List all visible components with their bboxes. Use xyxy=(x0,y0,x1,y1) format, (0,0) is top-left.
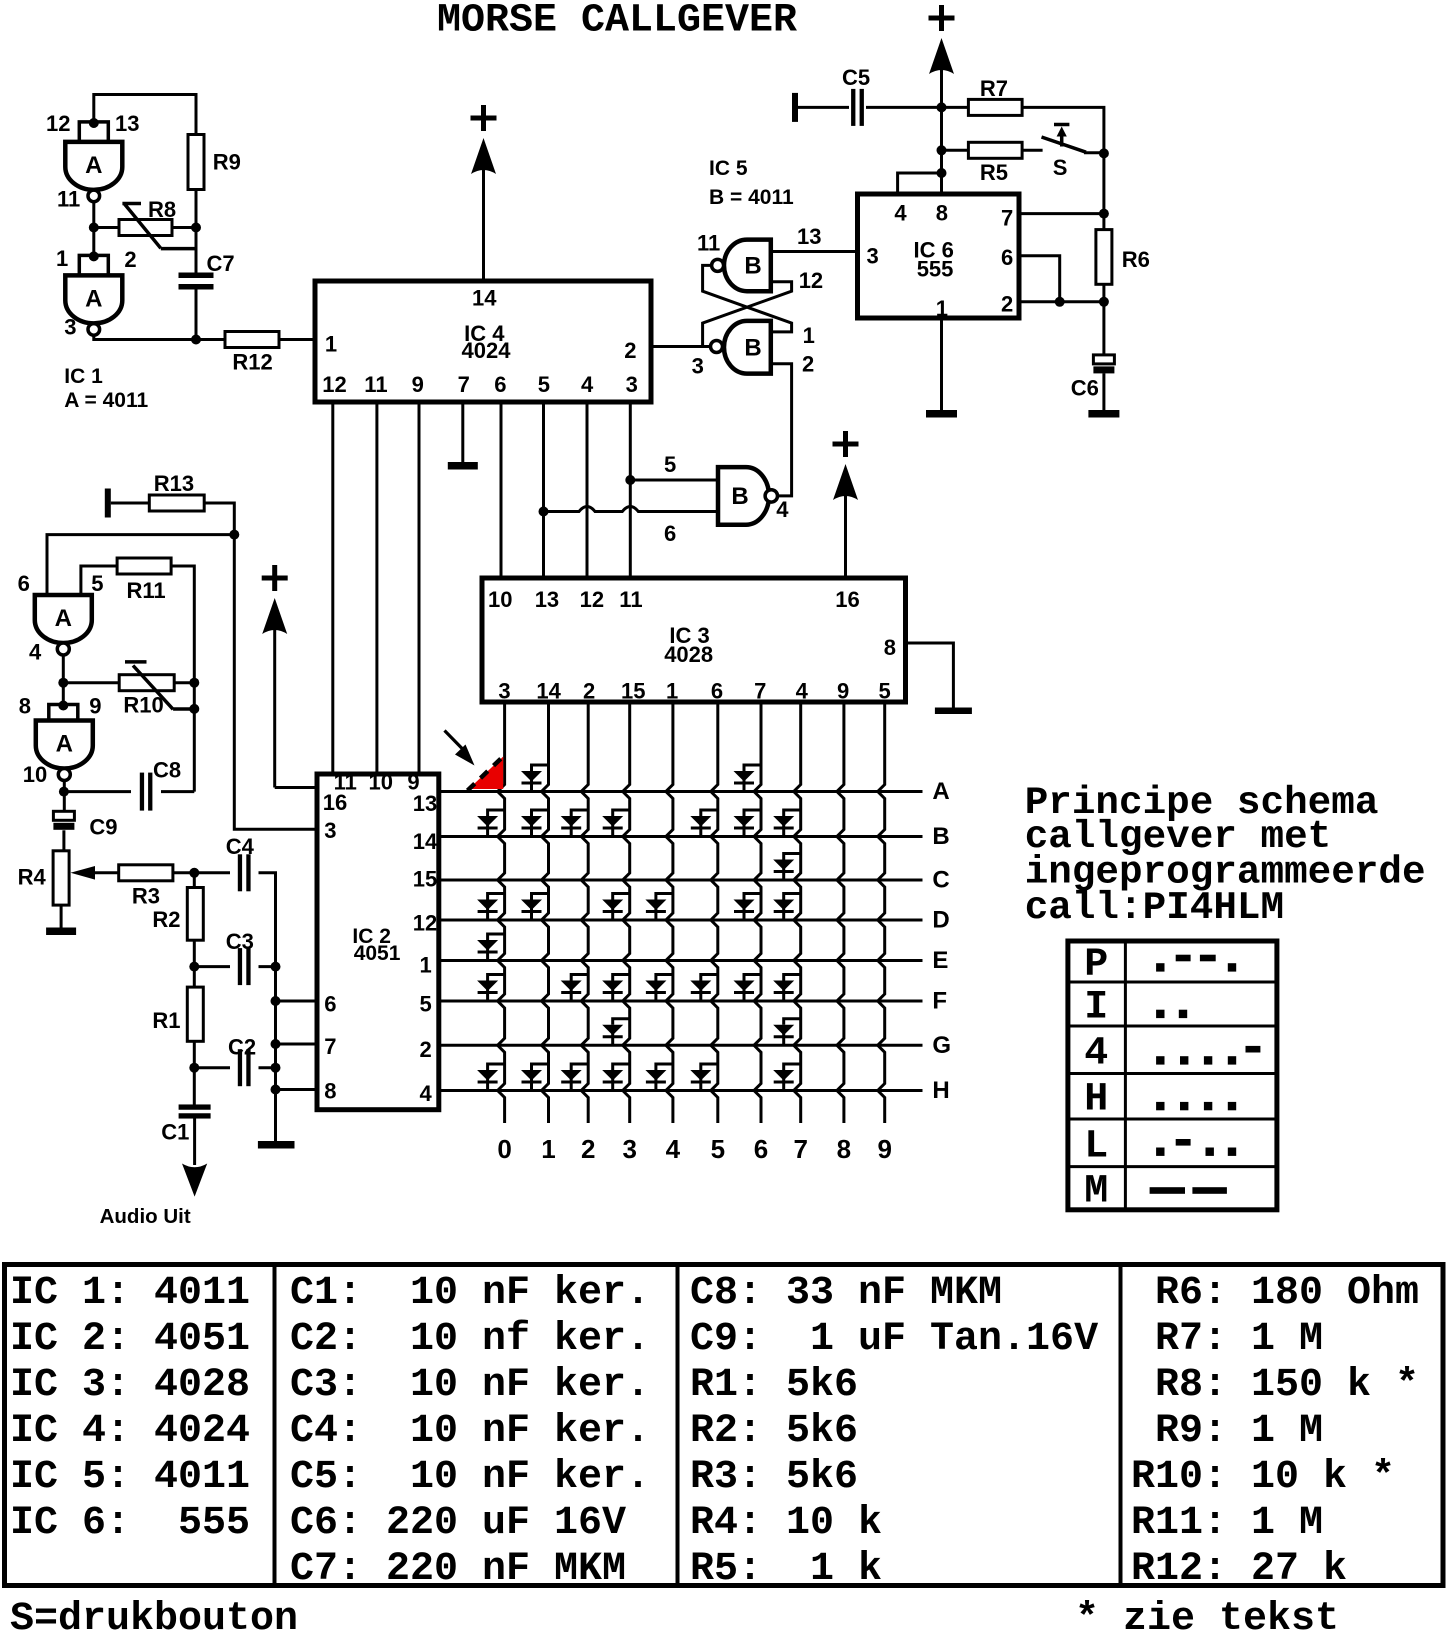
capacitor C1 xyxy=(179,1104,211,1109)
wire matrix column 6 from IC3 with crossover jogs xyxy=(754,702,761,1123)
ground under C6 xyxy=(1088,410,1119,418)
resistor R7 xyxy=(968,99,1022,115)
resistor R5 xyxy=(968,142,1022,158)
node morse H .... xyxy=(1156,1102,1164,1110)
node A1 out / R8 left xyxy=(89,223,99,233)
svg-text:10: 10 xyxy=(488,587,512,612)
wire C2 right to rail xyxy=(259,1066,276,1069)
resistor R11 xyxy=(117,558,171,574)
svg-text:1: 1 xyxy=(936,296,948,321)
wire IC4 pin2 to B2 output pin 3 xyxy=(651,345,711,348)
wire matrix column 2 from IC3 with crossover jogs xyxy=(581,702,588,1123)
terminal open end left of R13 xyxy=(105,489,111,518)
svg-text:C7: C7 xyxy=(207,251,235,276)
wire A3 output down to node xyxy=(62,655,65,706)
svg-text:R3: 5k6: R3: 5k6 xyxy=(690,1455,858,1500)
capacitor C7 xyxy=(179,273,214,279)
svg-text:M: M xyxy=(1084,1170,1108,1215)
junction C3 / rail xyxy=(271,962,281,972)
svg-text:1: 1 xyxy=(420,952,432,977)
svg-text:IC 6: 555: IC 6: 555 xyxy=(10,1501,250,1546)
svg-text:4024: 4024 xyxy=(462,338,512,363)
junction pin7 / R6 top xyxy=(1099,209,1109,219)
svg-text:IC 3: 4028: IC 3: 4028 xyxy=(10,1363,250,1408)
svg-text:A: A xyxy=(85,152,102,179)
svg-text:R11: R11 xyxy=(127,578,166,603)
junction R5 tap xyxy=(937,145,947,155)
wire B3 input 5 from IC4 pin3 line xyxy=(630,479,718,482)
junction +V / C5 / R7 xyxy=(937,102,947,112)
svg-text:13: 13 xyxy=(797,224,821,249)
diode matrix row A column 1 xyxy=(521,765,549,792)
svg-text:9: 9 xyxy=(89,693,101,718)
svg-text:C5: C5 xyxy=(842,65,870,90)
junction R3 / R2 / C4 xyxy=(189,868,199,878)
junction R13 line / A3 input 6 xyxy=(229,530,239,540)
svg-text:IC 5: IC 5 xyxy=(709,157,748,180)
diode matrix row F column 2 xyxy=(561,975,589,1002)
svg-text:5: 5 xyxy=(664,452,676,477)
svg-text:14: 14 xyxy=(472,286,497,311)
wire R11 left to gate A3 input 5 xyxy=(81,566,117,595)
diode matrix row F column 5 xyxy=(690,975,718,1002)
wire R9 bottom to junction xyxy=(195,190,198,228)
svg-text:7: 7 xyxy=(754,678,766,703)
node morse I .. xyxy=(1156,1010,1164,1018)
svg-text:R11: 1 M: R11: 1 M xyxy=(1131,1501,1323,1546)
node morse P .--. xyxy=(1156,963,1164,971)
svg-text:R4: 10 k: R4: 10 k xyxy=(690,1501,882,1546)
svg-text:* zie tekst: * zie tekst xyxy=(1075,1597,1339,1638)
wire matrix row H from IC2 xyxy=(439,1089,923,1092)
wire terminal to R13 xyxy=(111,502,150,505)
trimmer arrow R8 xyxy=(122,204,194,249)
svg-text:12: 12 xyxy=(799,268,823,293)
wire node down to R2 xyxy=(193,873,196,888)
svg-text:C8: C8 xyxy=(153,758,181,783)
svg-text:2: 2 xyxy=(420,1037,432,1062)
wire matrix column 1 from IC3 with crossover jogs xyxy=(542,702,549,1123)
diode matrix row G column 7 xyxy=(773,1019,801,1046)
svg-text:14: 14 xyxy=(413,829,438,854)
diode matrix row B column 7 xyxy=(773,810,801,837)
wire IC6 pin7 to R6 rail xyxy=(1019,212,1104,215)
svg-text:H: H xyxy=(932,1077,949,1104)
svg-text:11: 11 xyxy=(364,372,387,397)
wire C9 to R4 xyxy=(62,830,65,851)
diode matrix row B column 5 xyxy=(690,810,718,837)
svg-text:0: 0 xyxy=(497,1134,511,1164)
svg-text:A: A xyxy=(932,778,949,805)
wire matrix column 8 from IC3 with crossover jogs xyxy=(837,702,844,1123)
svg-text:13: 13 xyxy=(115,111,139,136)
wire rail stub to IC2 pin 6 xyxy=(276,1000,318,1003)
node IC1 A1 input notch pins 12/13 xyxy=(79,122,108,142)
svg-text:16: 16 xyxy=(835,587,859,612)
svg-text:1: 1 xyxy=(325,331,337,356)
diode matrix row D column 6 xyxy=(734,894,762,921)
wire rail stub to IC2 pin 8 xyxy=(276,1088,318,1091)
svg-text:11: 11 xyxy=(619,587,642,612)
diode matrix row H column 3 xyxy=(602,1064,630,1091)
wire C3 right to rail xyxy=(259,965,276,968)
junction A3 out / R10 xyxy=(58,678,68,688)
arrow audio output xyxy=(182,1164,207,1197)
wire R11 right to vertical rail xyxy=(171,566,194,792)
wire IC4 pin 5 to IC3 pin 13 xyxy=(542,402,545,576)
svg-text:14: 14 xyxy=(536,678,561,703)
svg-text:5: 5 xyxy=(711,1134,725,1164)
wire C5 to +V node xyxy=(866,106,942,109)
svg-text:C4: 10 nF ker.: C4: 10 nF ker. xyxy=(290,1409,650,1454)
svg-text:R8: 150 k *: R8: 150 k * xyxy=(1131,1363,1419,1408)
svg-text:12: 12 xyxy=(46,111,70,136)
svg-text:C1: 10 nF ker.: C1: 10 nF ker. xyxy=(290,1271,650,1316)
ground IC3 pin 8 xyxy=(935,708,972,715)
wire C8 right to rail bottom xyxy=(161,790,194,793)
wire R7 right, down to switch node xyxy=(1022,107,1104,153)
NAND gate IC1-A4 xyxy=(36,721,93,769)
junction on IC4-pin5 line for B3 input 6 xyxy=(539,507,549,517)
diode matrix row F column 4 xyxy=(645,975,673,1002)
wire IC4 pin 4 to IC3 pin 12 xyxy=(586,402,589,576)
svg-text:C4: C4 xyxy=(226,834,255,859)
svg-text:R4: R4 xyxy=(18,865,47,890)
NAND gate IC5-B2 (points left) xyxy=(724,321,771,374)
wire A2 output pin 3 to R12 xyxy=(94,335,225,339)
svg-text:4: 4 xyxy=(796,678,809,703)
terminal open end left of C5 xyxy=(792,93,798,122)
resistor R2 xyxy=(187,888,203,941)
svg-text:2: 2 xyxy=(124,247,136,272)
wire matrix column 4 from IC3 with crossover jogs xyxy=(666,702,673,1123)
NAND gate IC5-B3 (points right) xyxy=(718,467,769,525)
wire node to C4 xyxy=(194,871,230,874)
svg-text:3: 3 xyxy=(64,314,76,339)
wire C6 to ground xyxy=(1102,373,1105,410)
svg-text:C8: 33 nF MKM: C8: 33 nF MKM xyxy=(690,1271,1002,1316)
wire node to C2 xyxy=(194,1066,230,1069)
svg-text:C5: 10 nF ker.: C5: 10 nF ker. xyxy=(290,1455,650,1500)
NAND gate IC5-B1 (points left) xyxy=(724,240,771,292)
node IC1 A4 input notch pins 8/9 xyxy=(49,705,78,721)
wire matrix column 7 from IC3 with crossover jogs xyxy=(794,702,801,1123)
svg-text:E: E xyxy=(932,947,948,974)
svg-text:6: 6 xyxy=(494,372,506,397)
ground under R4 xyxy=(46,928,76,936)
diode matrix row H column 2 xyxy=(561,1064,589,1091)
wire matrix row G from IC2 xyxy=(439,1044,923,1047)
wire matrix row A from IC2 xyxy=(439,790,923,793)
diode matrix row B column 6 xyxy=(734,810,762,837)
power +V supply arrow to IC2 pin 16 xyxy=(262,565,288,591)
diode (marked red) matrix row A column 0 xyxy=(469,757,504,790)
svg-text:9: 9 xyxy=(837,678,849,703)
junction R1 / C2 / C1 xyxy=(189,1063,199,1073)
svg-text:8: 8 xyxy=(19,693,31,718)
resistor R9 xyxy=(188,135,204,190)
wire IC4 pin 11 to IC2 pin 10 xyxy=(375,402,378,772)
svg-text:2: 2 xyxy=(802,351,814,376)
ground bottom of C4/C2 rail xyxy=(258,1141,295,1149)
junction switch / R7 rail xyxy=(1099,148,1109,158)
wire IC4 pin 3 to IC3 pin 11 xyxy=(629,402,632,576)
IC U-IC2 4051 multiplexer body xyxy=(317,774,439,1110)
NAND gate IC1-A2 xyxy=(65,275,122,323)
wire node to C3 xyxy=(194,965,230,968)
wire IC6 pin1 to ground xyxy=(940,318,943,410)
junction R10 wiper / rail xyxy=(189,704,199,714)
svg-text:L: L xyxy=(1084,1124,1108,1169)
svg-text:5: 5 xyxy=(420,991,432,1016)
svg-text:1: 1 xyxy=(666,678,678,703)
wire switch to right rail xyxy=(1084,151,1104,154)
svg-text:R2: 5k6: R2: 5k6 xyxy=(690,1409,858,1454)
svg-text:A: A xyxy=(85,285,102,312)
svg-text:C6: 220 uF 16V: C6: 220 uF 16V xyxy=(290,1501,626,1546)
svg-text:C2: C2 xyxy=(228,1035,256,1060)
diode matrix row H column 7 xyxy=(773,1064,801,1091)
diode matrix row E column 0 xyxy=(477,934,505,961)
node morse L .-.. xyxy=(1156,1148,1164,1156)
capacitor C8 xyxy=(140,773,144,811)
wire node down to R1 xyxy=(193,967,196,988)
svg-text:R7: 1 M: R7: 1 M xyxy=(1131,1317,1323,1362)
svg-text:8: 8 xyxy=(936,201,948,226)
wire C7 bottom to output line xyxy=(195,287,198,340)
trimmer arrow R10 xyxy=(125,662,194,709)
svg-text:P: P xyxy=(1084,943,1108,988)
wire B3 input 6 from IC4 pin5 line with hops xyxy=(544,507,719,512)
diode matrix row F column 7 xyxy=(773,975,801,1002)
svg-text:R12: R12 xyxy=(232,350,272,375)
wire node to R7 xyxy=(942,106,969,109)
diode matrix row H column 1 xyxy=(521,1064,549,1091)
R4 wiper arrow from R3 xyxy=(93,871,119,874)
diode matrix row D column 0 xyxy=(477,894,505,921)
wire cross-couple B1 out to B2 in 1 xyxy=(703,265,792,332)
resistor R1 xyxy=(187,987,203,1041)
wire matrix row E from IC2 xyxy=(439,959,923,962)
svg-text:C1: C1 xyxy=(161,1120,189,1145)
svg-text:9: 9 xyxy=(412,372,424,397)
svg-text:IC 2: 4051: IC 2: 4051 xyxy=(10,1317,250,1362)
diode matrix row D column 4 xyxy=(645,894,673,921)
svg-text:4028: 4028 xyxy=(664,642,713,667)
svg-text:Audio Uit: Audio Uit xyxy=(100,1205,191,1228)
svg-text:B: B xyxy=(744,335,761,362)
diode matrix row H column 5 xyxy=(690,1064,718,1091)
wire cross-couple B2 out to B1 in 12 xyxy=(703,282,792,347)
svg-text:R5: 1 k: R5: 1 k xyxy=(690,1547,882,1592)
wire R4 bottom to ground xyxy=(60,905,63,927)
svg-text:15: 15 xyxy=(621,678,645,703)
svg-text:R9: 1 M: R9: 1 M xyxy=(1131,1409,1323,1454)
junction C2 / rail xyxy=(271,1063,281,1073)
svg-text:B: B xyxy=(932,823,949,850)
svg-text:I: I xyxy=(1084,986,1108,1031)
wire IC1 gate A1 inputs 12/13 to top rail and R9 xyxy=(94,95,196,135)
svg-text:555: 555 xyxy=(917,256,954,281)
svg-text:R1: R1 xyxy=(152,1008,180,1033)
svg-text:6: 6 xyxy=(754,1134,768,1164)
capacitor C4 xyxy=(238,854,242,891)
junction rail / pin7 xyxy=(271,1039,281,1049)
svg-text:B: B xyxy=(744,253,761,280)
svg-text:4: 4 xyxy=(1084,1031,1108,1076)
svg-text:2: 2 xyxy=(1001,291,1013,316)
svg-text:IC 5: 4011: IC 5: 4011 xyxy=(10,1455,250,1500)
svg-text:3: 3 xyxy=(324,818,336,843)
wire A4 output to node xyxy=(63,781,66,812)
svg-text:6: 6 xyxy=(18,571,30,596)
svg-text:IC 1: 4011: IC 1: 4011 xyxy=(10,1271,250,1316)
diode matrix row B column 0 xyxy=(477,810,505,837)
svg-text:4: 4 xyxy=(29,639,42,664)
ground IC4 pin 7 xyxy=(448,462,478,470)
svg-text:R6: R6 xyxy=(1122,247,1150,272)
svg-text:1: 1 xyxy=(56,246,68,271)
wire matrix column 5 from IC3 with crossover jogs xyxy=(711,702,718,1123)
ground IC6 pin 1 xyxy=(926,410,957,418)
wire matrix column 9 from IC3 with crossover jogs xyxy=(878,702,885,1123)
svg-text:H: H xyxy=(1084,1078,1108,1123)
wire junction down to C7 xyxy=(195,228,198,274)
svg-text:15: 15 xyxy=(413,866,437,891)
svg-text:C3: 10 nF ker.: C3: 10 nF ker. xyxy=(290,1363,650,1408)
wire IC6 pin6 to pin2 xyxy=(1019,256,1060,302)
wire matrix row C from IC2 xyxy=(439,879,923,882)
node IC1 A2 input notch pins 1/2 xyxy=(79,255,108,275)
wire terminal to C5 xyxy=(798,106,849,109)
junction rail / pin8 xyxy=(271,1085,281,1095)
svg-text:10: 10 xyxy=(369,770,393,795)
wire R12 to IC4 pin 1 xyxy=(279,338,315,341)
svg-text:7: 7 xyxy=(793,1134,807,1164)
svg-text:S: S xyxy=(1053,155,1068,180)
power +V supply arrow to IC3 pin 16 xyxy=(833,431,859,457)
junction A4 out / C8 / C9 xyxy=(59,787,69,797)
wire R6 rail segments xyxy=(1102,153,1105,229)
power +V supply arrow to IC4 pin 14 xyxy=(471,105,497,131)
node morse 4 ....- xyxy=(1156,1056,1164,1064)
svg-text:F: F xyxy=(932,988,947,1015)
wire matrix row B from IC2 xyxy=(439,835,923,838)
diode matrix row F column 6 xyxy=(734,975,762,1002)
resistor R3 xyxy=(119,865,173,881)
wire IC6 pin8 up xyxy=(940,150,943,194)
diode matrix row A column 6 xyxy=(734,765,762,792)
wire IC3 pin 8 to ground xyxy=(906,643,954,708)
junction R9 bottom / R8 / C7 xyxy=(191,223,201,233)
svg-text:11: 11 xyxy=(697,231,720,256)
svg-text:R12: 27 k: R12: 27 k xyxy=(1131,1547,1347,1592)
svg-text:B: B xyxy=(731,483,748,510)
wire B2 pin 2 down to B3 output pin 4 xyxy=(771,364,792,496)
svg-text:R8: R8 xyxy=(148,197,176,222)
svg-text:12: 12 xyxy=(580,587,604,612)
capacitor C6 (polarized) xyxy=(1093,355,1114,364)
junction pin6/pin2 xyxy=(1055,297,1065,307)
junction R10 / R11 rail xyxy=(189,678,199,688)
wire node down to C1 xyxy=(193,1068,196,1106)
diode matrix row F column 0 xyxy=(477,975,505,1002)
svg-text:A: A xyxy=(56,731,73,758)
svg-text:9: 9 xyxy=(877,1134,891,1164)
svg-text:8: 8 xyxy=(324,1079,336,1104)
junction gate A1 inputs xyxy=(89,118,99,128)
wire rail stub to IC2 pin 7 xyxy=(276,1043,318,1046)
wire junction to gate A3 input 6 xyxy=(47,535,234,595)
svg-text:R5: R5 xyxy=(980,160,1008,185)
svg-text:5: 5 xyxy=(879,678,891,703)
IC U-IC6 555 timer body xyxy=(858,194,1020,318)
svg-text:C2: 10 nf ker.: C2: 10 nf ker. xyxy=(290,1317,650,1362)
wire R10 right to rail xyxy=(174,681,194,684)
wire node to C8 xyxy=(64,790,131,793)
svg-text:4: 4 xyxy=(420,1081,433,1106)
wire matrix row F from IC2 xyxy=(439,1000,923,1003)
wire IC4 pin 6 to IC3 pin 10 xyxy=(500,402,503,576)
diode matrix row G column 3 xyxy=(602,1019,630,1046)
svg-text:7: 7 xyxy=(1001,206,1013,231)
svg-text:3: 3 xyxy=(692,354,704,379)
svg-text:IC 4: 4024: IC 4: 4024 xyxy=(10,1409,250,1454)
svg-text:6: 6 xyxy=(1001,245,1013,270)
svg-text:D: D xyxy=(932,907,949,934)
wire node to R8 xyxy=(94,226,119,229)
svg-text:12: 12 xyxy=(322,372,346,397)
svg-text:1: 1 xyxy=(541,1134,555,1164)
svg-text:R13: R13 xyxy=(154,471,194,496)
diode matrix row H column 0 xyxy=(477,1064,505,1091)
wire R2 to node xyxy=(193,940,196,966)
svg-text:A: A xyxy=(55,605,72,632)
svg-text:C6: C6 xyxy=(1071,376,1099,401)
svg-text:8: 8 xyxy=(884,635,896,660)
diode matrix row H column 4 xyxy=(645,1064,673,1091)
svg-text:B = 4011: B = 4011 xyxy=(709,186,794,209)
svg-text:4051: 4051 xyxy=(354,942,401,965)
svg-text:C3: C3 xyxy=(226,929,254,954)
wire IC6 pin2 to R6 bottom / C6 xyxy=(1019,300,1104,303)
wire IC4 pin 9 to IC2 pin 9 xyxy=(418,402,421,772)
junction pin2 / R6 bottom / C6 xyxy=(1099,297,1109,307)
svg-text:R7: R7 xyxy=(980,76,1008,101)
wire node to R5 xyxy=(942,149,969,152)
wire matrix column 3 from IC3 with crossover jogs xyxy=(623,702,630,1123)
svg-text:13: 13 xyxy=(413,791,437,816)
junction R2 / R1 / C3 xyxy=(189,962,199,972)
resistor R6 xyxy=(1096,230,1112,285)
svg-text:5: 5 xyxy=(538,372,550,397)
svg-text:C9: 1 uF Tan.16V: C9: 1 uF Tan.16V xyxy=(690,1317,1098,1362)
wire +V to IC2 pin 16 xyxy=(275,786,317,789)
svg-text:3: 3 xyxy=(626,372,638,397)
svg-text:12: 12 xyxy=(413,911,437,936)
wire IC4 pin 12 to IC2 pin 11 xyxy=(331,402,334,772)
svg-text:IC 1: IC 1 xyxy=(64,365,103,388)
svg-text:2: 2 xyxy=(624,338,636,363)
capacitor C3 xyxy=(238,948,242,985)
arrow pointing at red diode xyxy=(445,731,467,753)
svg-text:2: 2 xyxy=(583,678,595,703)
junction pin4/pin8 xyxy=(937,168,947,178)
resistor R10 (trimmer) xyxy=(119,675,174,691)
potentiometer R4 xyxy=(53,851,69,905)
diode matrix row B column 1 xyxy=(521,810,549,837)
svg-text:5: 5 xyxy=(91,571,103,596)
